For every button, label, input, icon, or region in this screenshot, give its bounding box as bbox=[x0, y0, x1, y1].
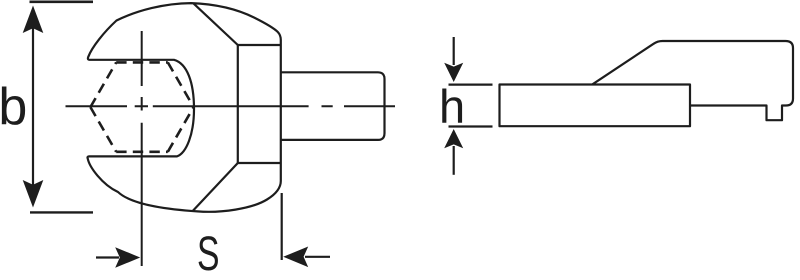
dimension b: top extension line bbox=[30, 0, 94, 3]
vertical centerline / S extension (dash-dot) bbox=[141, 31, 143, 266]
dimension S: right arrow (points left) bbox=[305, 256, 330, 258]
hex nut (dashed) bbox=[90, 62, 193, 151]
svg-text:h: h bbox=[439, 80, 465, 133]
side view: insert tang blade (rectangle) bbox=[500, 85, 691, 127]
dimension h: bottom arrow (points up) bbox=[453, 146, 455, 175]
svg-text:S: S bbox=[197, 228, 220, 280]
dimension h: top arrow (points down) bbox=[453, 37, 455, 65]
svg-text:b: b bbox=[0, 78, 27, 136]
head chamfer bevel: top diagonal bbox=[194, 3, 238, 45]
dimension b: vertical dimension line bbox=[32, 28, 34, 186]
dimension S: left arrow (points right) bbox=[96, 256, 119, 258]
square-drive tang (front view) bbox=[281, 72, 385, 140]
wrench head outline (front view, open-end) bbox=[87, 3, 280, 212]
dimension b: upper arrowhead bbox=[23, 6, 44, 34]
dimension h: bottom extension line bbox=[449, 125, 493, 127]
side view: wrench receptacle head outline bbox=[593, 41, 794, 120]
dimension S: right extension line bbox=[281, 193, 283, 260]
dimension h: top extension line bbox=[449, 83, 493, 85]
dimension b: bottom extension line bbox=[30, 211, 93, 213]
dimension b: lower arrowhead bbox=[23, 180, 44, 208]
head chamfer bevel: rim edge (horizontal top, vertical, horizontal bottom) bbox=[238, 45, 281, 163]
horizontal centerline (dash-dot) bbox=[66, 105, 396, 107]
head chamfer bevel: bottom diagonal bbox=[193, 163, 238, 211]
